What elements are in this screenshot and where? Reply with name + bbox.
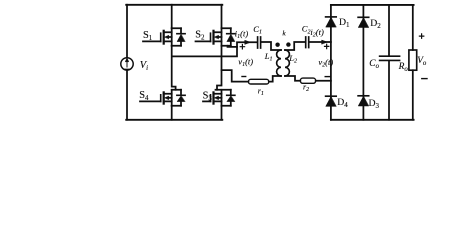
label + primary (240, 45, 244, 49)
svg-text:D4: D4 (337, 97, 348, 109)
wire rectifier top rail (331, 4, 414, 6)
svg-text:r2: r2 (303, 83, 309, 94)
transformer primary winding L1 (277, 50, 281, 76)
wire top rail (input bridge) (126, 4, 222, 6)
svg-text:D3: D3 (369, 98, 380, 110)
svg-text:k: k (282, 29, 286, 38)
svg-text:C1: C1 (253, 24, 262, 36)
svg-text:L1: L1 (264, 51, 273, 63)
diode D4 (326, 96, 337, 106)
svg-text:S4: S4 (139, 90, 149, 102)
svg-text:D2: D2 (370, 18, 381, 30)
wire r2 to rectifier (316, 80, 331, 82)
wire rectifier right leg (362, 5, 364, 120)
svg-text:i1(t): i1(t) (235, 28, 249, 40)
label + output (419, 34, 423, 38)
svg-text:Vi: Vi (140, 60, 148, 72)
transistor S4 (140, 90, 185, 106)
diode D3 (358, 96, 369, 106)
wire rectifier left leg (330, 5, 332, 120)
voltage source Vi (121, 58, 133, 70)
wire C1 to primary coil (261, 42, 281, 50)
wire left leg (172, 5, 176, 120)
svg-text:i2(t): i2(t) (310, 27, 324, 39)
svg-text:r1: r1 (258, 86, 264, 97)
svg-text:S1: S1 (143, 30, 153, 42)
wire rectifier bottom rail (331, 119, 414, 121)
svg-text:S3: S3 (203, 91, 213, 103)
svg-text:C2: C2 (302, 24, 311, 36)
capacitor Co (380, 5, 400, 120)
label - primary (242, 76, 246, 78)
capacitor C2 (306, 37, 309, 48)
svg-text:v1(t): v1(t) (238, 57, 253, 69)
diode D2 (358, 17, 369, 27)
resistor r2 (300, 78, 315, 83)
label + secondary (325, 44, 329, 48)
svg-text:S2: S2 (195, 30, 205, 42)
polarity dot secondary (286, 42, 290, 46)
wire secondary coil top to C2 (285, 42, 305, 50)
svg-text:L2: L2 (288, 53, 297, 65)
wire r1 to primary coil bottom (269, 76, 281, 82)
transformer secondary winding L2 (285, 50, 289, 76)
diode D1 (326, 17, 337, 27)
resistor Ro (409, 5, 417, 120)
svg-text:Co: Co (369, 59, 379, 70)
wire bridge midpoint B to r1 (222, 70, 249, 82)
wire right leg (217, 5, 222, 120)
label - output (422, 78, 427, 80)
wire S2 source step (228, 46, 238, 47)
wire left rail (126, 5, 128, 120)
svg-text:D1: D1 (339, 17, 350, 29)
wire secondary coil bottom to r2 (285, 76, 300, 81)
transistor S1 (143, 28, 185, 46)
label - secondary (325, 76, 330, 78)
wire C2 to rectifier (310, 41, 331, 43)
svg-text:Ro: Ro (398, 62, 409, 73)
svg-text:Vo: Vo (417, 56, 427, 67)
current arrow i2 (322, 40, 328, 44)
polarity dot primary (275, 43, 279, 47)
current arrow i1 (245, 40, 251, 44)
wire bottom rail (input bridge) (126, 119, 222, 121)
resistor r1 (248, 79, 268, 84)
capacitor C1 (258, 37, 261, 48)
transistor S2 (196, 28, 235, 46)
transistor S3 (203, 90, 235, 106)
wire bridge midpoint A to primary top (172, 42, 257, 56)
